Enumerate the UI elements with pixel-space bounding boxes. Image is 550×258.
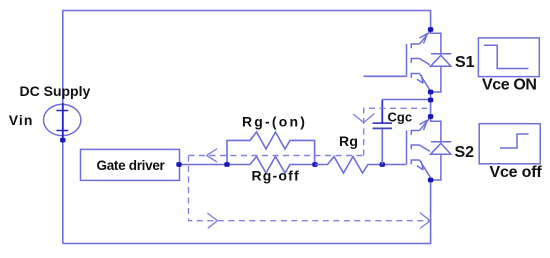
arrow right near start of lower dashed path: [207, 213, 217, 228]
node S1 emitter: [428, 90, 433, 95]
waveform trace turn-on: [484, 45, 528, 68]
svg-text:Rg-off: Rg-off: [252, 168, 300, 184]
node driver output: [176, 162, 181, 167]
wire: gate line to S2 gate: [382, 164, 406, 166]
svg-text:DC Supply: DC Supply: [20, 83, 91, 99]
gate driver U1 box: [81, 149, 180, 180]
arrow right at end of lower dashed path: [420, 213, 431, 229]
wire: S1 gate lead: [364, 75, 407, 77]
node Cgc bottom junction: [380, 162, 385, 167]
DC Supply V1: [44, 103, 81, 143]
node S2 collector: [428, 114, 433, 119]
svg-text:Gate driver: Gate driver: [97, 158, 166, 173]
svg-text:Rg-(on): Rg-(on): [242, 114, 307, 130]
node S2 emitter: [428, 178, 433, 183]
wire: driver output to left junction: [179, 164, 227, 166]
svg-text:Rg: Rg: [339, 133, 358, 149]
svg-text:S1: S1: [455, 54, 475, 71]
diode D2 (S2 freewheel): [431, 118, 452, 181]
arrow down on Cgc dashed branch: [353, 114, 374, 123]
svg-text:Vce off: Vce off: [490, 164, 543, 181]
node below DC supply: [60, 138, 65, 143]
dashed gate current path (upper): [189, 155, 364, 157]
node right junction: [312, 162, 317, 167]
IGBT S1: [407, 31, 431, 92]
capacitor Cgc: [373, 100, 392, 165]
wire: bottom return and S2 emitter vertical: [63, 181, 431, 244]
wire: Cgc top to midpoint: [382, 99, 430, 101]
dashed return path (lower): [189, 156, 430, 221]
svg-text:Vce ON: Vce ON: [482, 77, 537, 94]
resistor Rg: [315, 157, 382, 174]
svg-text:S2: S2: [455, 144, 475, 161]
dashed path up through Cgc branch to midpoint: [364, 108, 427, 155]
node Cgc top: [428, 98, 433, 103]
resistor Rg-off on main line: [227, 157, 315, 174]
arrow left on upper dashed path: [207, 149, 218, 162]
waveform box Vce ON: [478, 38, 539, 77]
wire: midpoint vertical S1 emitter to S2 collector: [430, 92, 432, 118]
node S1 collector: [428, 27, 433, 32]
IGBT S2: [407, 117, 431, 178]
svg-text:Cgc: Cgc: [388, 110, 413, 125]
waveform box Vce off: [479, 124, 540, 164]
svg-text:Vin: Vin: [9, 112, 34, 128]
diode D1 (S1 freewheel): [431, 30, 452, 93]
waveform trace turn-off: [500, 134, 529, 148]
resistor Rg-(on) top branch: [227, 132, 315, 165]
node left junction: [224, 162, 229, 167]
wire: outer loop top/left from DC supply to S1 collector: [63, 11, 431, 244]
